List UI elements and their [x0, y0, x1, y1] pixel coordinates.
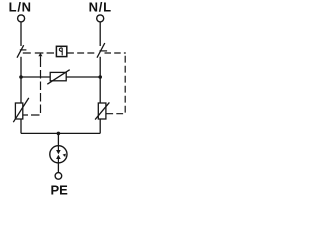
- wire N disconnector to bottom rail: [99, 57, 101, 134]
- bottom rail wire: [21, 132, 100, 134]
- linkage arrow up: [38, 53, 42, 56]
- linkage dashed drop right: [106, 54, 125, 114]
- svg-text:PE: PE: [51, 183, 69, 198]
- wire branch left: [21, 76, 50, 78]
- varistor R1 diagonal: [47, 70, 69, 85]
- linkage dashed rail middle: [67, 52, 96, 54]
- disconnector F1 blade: [17, 45, 24, 58]
- wire L down to disconnector: [20, 22, 22, 46]
- varistor R2 (left) body: [15, 103, 22, 119]
- wire PE branch down: [57, 133, 59, 173]
- spark gap upper electrode arrow: [57, 146, 59, 151]
- disconnector F1 thermal tick: [20, 49, 27, 51]
- svg-text:L/N: L/N: [9, 0, 32, 14]
- varistor R3 (right) body: [98, 103, 106, 119]
- wire N down to disconnector: [99, 22, 101, 46]
- varistor R2 diagonal: [13, 98, 28, 122]
- terminal PE: [55, 173, 62, 180]
- svg-text:N/L: N/L: [89, 0, 112, 14]
- terminal L/N: [18, 15, 25, 22]
- linkage dashed rail left: [23, 52, 54, 54]
- wire L disconnector to bottom rail: [20, 57, 22, 134]
- node PE junction: [57, 132, 61, 136]
- spark gap lower electrode arrow: [57, 158, 59, 163]
- spark gap body: [50, 146, 67, 163]
- varistor R3 diagonal: [95, 102, 109, 119]
- wire branch right: [66, 76, 100, 78]
- disconnector F2 thermal tick: [100, 50, 108, 52]
- node N branch junction: [98, 75, 102, 79]
- varistor R1 (L-N) body: [50, 72, 66, 80]
- indicator flag: [59, 48, 62, 56]
- terminal N/L: [97, 15, 104, 22]
- node L branch junction: [19, 75, 23, 79]
- spark gap trigger mark: [63, 154, 66, 157]
- linkage dashed rail right to corner: [105, 52, 126, 54]
- linkage dashed drop left: [40, 56, 42, 59]
- disconnector F2 blade: [97, 43, 105, 58]
- indicator box: [56, 46, 66, 56]
